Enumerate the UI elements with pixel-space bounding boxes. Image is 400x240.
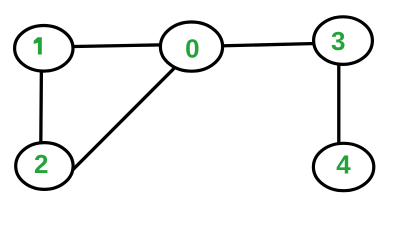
wire edge 3-4 — [337, 62, 340, 146]
wire edge 0-3 — [220, 44, 316, 46]
node 2 ellipse — [16, 143, 73, 190]
node 3 ellipse — [314, 17, 373, 65]
svg-text:3: 3 — [331, 26, 345, 56]
wire edge 1-0 — [68, 45, 165, 47]
wire edge 1-2 — [39, 68, 43, 145]
node 1 label — [34, 37, 42, 54]
node 1 ellipse — [15, 26, 73, 72]
svg-text:4: 4 — [336, 150, 351, 180]
node 4 ellipse — [313, 143, 373, 190]
node 0 ellipse — [160, 22, 222, 71]
wire edge 2-0 — [71, 68, 175, 172]
svg-text:0: 0 — [185, 33, 199, 63]
svg-text:2: 2 — [34, 149, 48, 179]
